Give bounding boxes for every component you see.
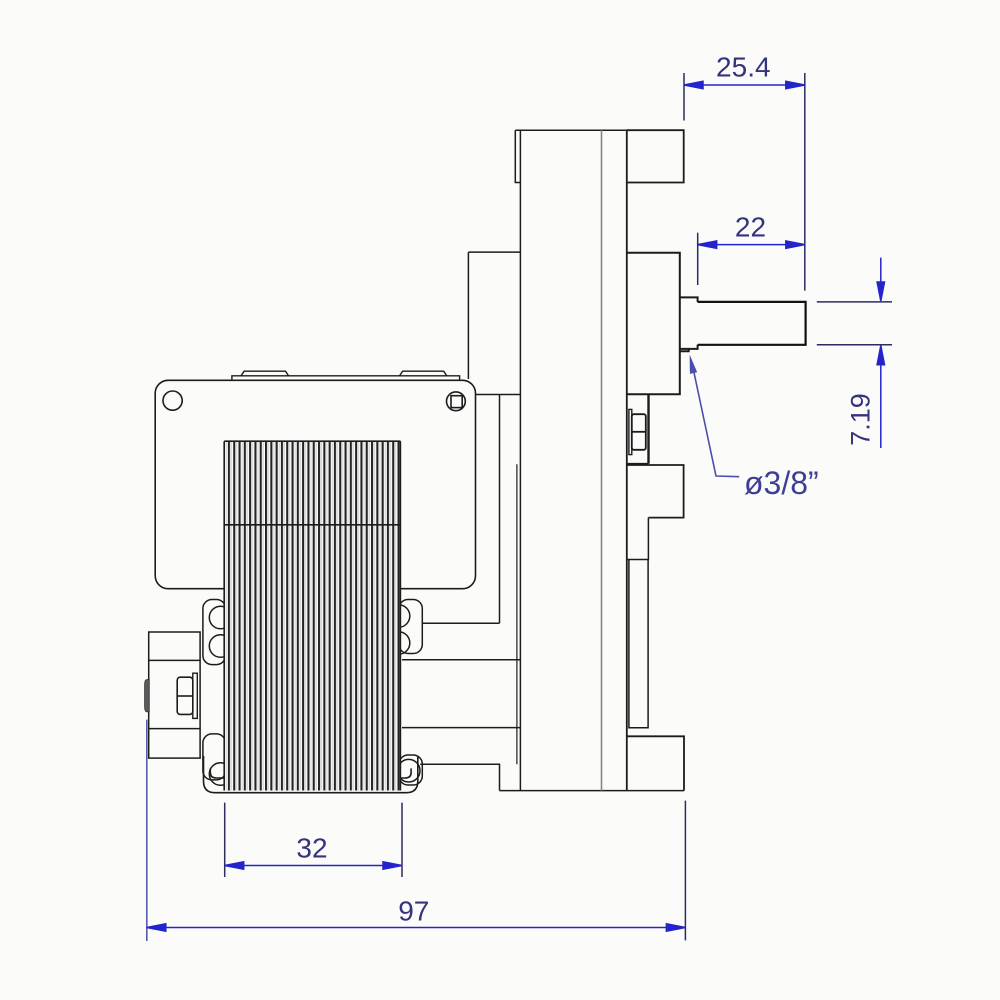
gearbox joint line (gray) [601,130,603,790]
nut pocket right wall [647,394,649,464]
bolt tip [145,680,150,712]
top-right mounting ear [627,130,684,182]
motor bottom end bell [204,756,418,793]
stator boss lower-right [397,755,422,785]
leader arrow for shaft dia [693,366,740,477]
dim 32 extension left [224,803,226,877]
dim 22 extension left [697,233,699,285]
svg-text:25.4: 25.4 [716,52,771,83]
plate inner-left line [516,464,518,764]
dim 97 extension right [684,801,686,941]
bolt head facet line [177,695,193,697]
dim 97 line [147,924,686,931]
bolt head [177,677,193,714]
motor tie-bolt line [422,622,500,624]
stator lamination fins [224,441,400,790]
svg-text:32: 32 [296,833,327,864]
nut mid line [632,431,646,433]
nut head [632,414,646,450]
motor mounting bracket upper [468,252,520,623]
dim 97 extension left [146,720,148,941]
plate bottom edge [500,790,685,792]
stator boss upper-right [387,600,422,655]
output shaft [698,302,806,345]
dim 25.4 line [684,81,805,88]
svg-text:ø3/8”: ø3/8” [744,465,819,501]
plate bottom-left step [420,764,499,790]
shaft bushing step [680,297,698,351]
bolt washer [193,673,198,718]
cap tab right [400,371,447,376]
stator boss lower-left [203,734,232,785]
right-side slot cover [627,518,649,728]
dim 7.19 reference lines [817,302,892,345]
stator boss upper-left [203,600,232,665]
dim 7.19 arrows [877,258,884,448]
nut pocket bottom [627,463,649,465]
dim 25.4 extension right [804,73,806,291]
rear shaft nut on plate [627,394,649,464]
motor end cap [155,380,475,588]
plate right edge [626,130,628,790]
lamination split line [224,524,400,526]
bottom-right mounting ear [627,736,684,790]
plate top-left notch strip [515,130,520,182]
plate left edge [519,130,521,790]
cap screw hole right [447,392,466,411]
cap screw hole left [163,391,182,410]
dim 22 line [698,241,805,248]
dim 25.4 extension left [683,73,685,121]
dim 32 extension right [401,803,403,877]
motor frame band [402,660,520,728]
plate top edge [515,129,683,131]
adjustment hex bolt [177,673,197,718]
cap tab left [241,371,288,376]
nut washer strip [629,409,632,454]
shaft hub block [627,253,680,394]
left capacitor bracket [149,632,200,758]
cap top strip [232,371,460,380]
svg-text:22: 22 [735,212,766,243]
svg-text:7.19: 7.19 [846,393,876,446]
right-side tab [627,465,684,518]
svg-text:97: 97 [398,896,429,927]
dim 32 line [225,862,402,869]
gearbox housing plate [420,130,684,790]
